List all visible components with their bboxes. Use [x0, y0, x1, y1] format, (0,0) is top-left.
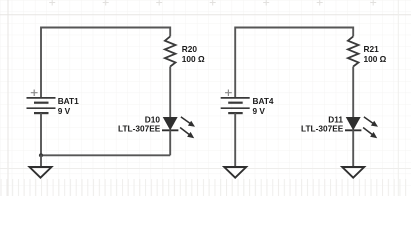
- svg-text:R21: R21: [364, 44, 380, 54]
- ground (BAT4): [224, 167, 246, 178]
- battery BAT4: [221, 90, 250, 114]
- ground (D11): [342, 167, 364, 178]
- svg-text:LTL-307EE: LTL-307EE: [301, 124, 344, 134]
- ground: [30, 167, 52, 178]
- wire BAT1+ to R20 top: [41, 28, 170, 98]
- wire junction to ground: [40, 155, 42, 167]
- wire BAT4+ to R21 top: [235, 28, 353, 98]
- battery BAT1: [27, 90, 56, 114]
- resistor R20: [165, 36, 176, 66]
- wire BAT4- down to ground: [234, 113, 236, 167]
- resistor R21: [348, 36, 359, 66]
- svg-text:100 Ω: 100 Ω: [364, 54, 387, 64]
- svg-text:LTL-307EE: LTL-307EE: [118, 124, 161, 134]
- svg-text:100 Ω: 100 Ω: [182, 54, 205, 64]
- node junction: [39, 153, 43, 157]
- wire D10 cathode down: [169, 130, 171, 155]
- wire D11 cathode to ground: [352, 130, 354, 167]
- svg-text:BAT1: BAT1: [58, 96, 79, 106]
- svg-text:R20: R20: [182, 44, 198, 54]
- wire R21 bottom to D11 anode: [352, 67, 354, 118]
- wire BAT1- down to junction: [40, 113, 42, 155]
- LED D10: [162, 117, 195, 138]
- svg-text:9 V: 9 V: [253, 106, 266, 116]
- wire bottom horizontal: [41, 154, 170, 156]
- LED D11: [345, 117, 378, 138]
- svg-text:BAT4: BAT4: [253, 96, 274, 106]
- wire R20 bottom to D10 anode: [169, 67, 171, 118]
- svg-text:9 V: 9 V: [58, 106, 71, 116]
